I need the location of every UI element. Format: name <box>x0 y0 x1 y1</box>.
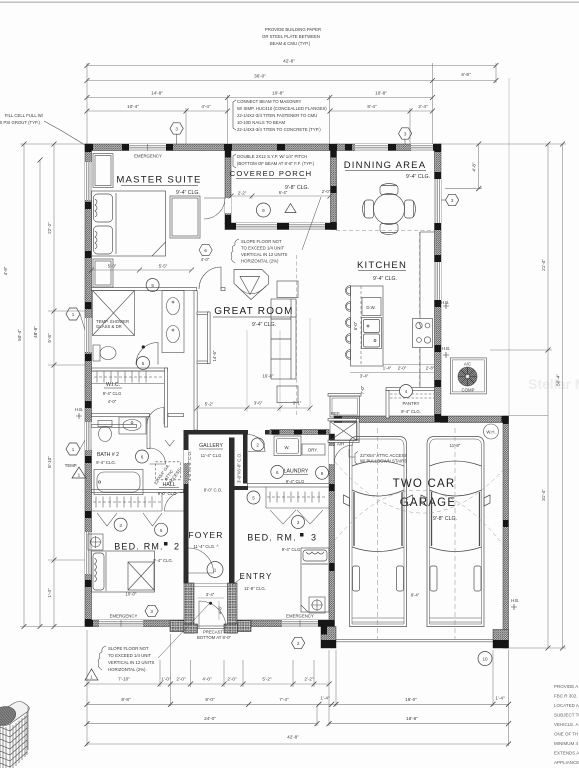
svg-text:7'-0": 7'-0" <box>360 385 365 394</box>
svg-text:SUBJECT TO: SUBJECT TO <box>554 713 579 718</box>
niche jog great room <box>197 312 210 315</box>
AH closet <box>330 422 357 441</box>
window: left wall d (bedrm2) <box>85 532 92 574</box>
svg-text:PRECAST: PRECAST <box>203 630 224 635</box>
wall: kitchen REF nook <box>328 394 361 397</box>
furniture: master dresser <box>170 196 200 238</box>
svg-text:EMERGENCY: EMERGENCY <box>110 614 138 619</box>
room label: BED RM 2 <box>114 542 180 564</box>
bedrm3 fan box <box>309 597 325 613</box>
filled cells: top wall <box>85 144 93 151</box>
svg-text:4'-8": 4'-8" <box>3 266 8 275</box>
note: slope floor bottom-left <box>85 604 209 680</box>
svg-text:22'-2": 22'-2" <box>47 222 52 234</box>
svg-text:14'-8": 14'-8" <box>151 91 163 96</box>
svg-text:11'-8" CLG.: 11'-8" CLG. <box>244 586 266 591</box>
svg-text:5'-5": 5'-5" <box>159 264 168 269</box>
svg-text:ENTRY: ENTRY <box>240 572 273 581</box>
svg-text:HORIZONTAL (2%): HORIZONTAL (2%) <box>241 259 279 264</box>
svg-text:6: 6 <box>204 248 207 253</box>
wall: garage right <box>503 416 509 648</box>
svg-text:7'-4": 7'-4" <box>279 697 289 702</box>
room label: HALL <box>153 440 222 496</box>
svg-text:PANTRY: PANTRY <box>402 401 419 406</box>
svg-text:9'-4" CLG: 9'-4" CLG <box>286 479 305 484</box>
svg-text:TEMP.: TEMP. <box>65 463 78 468</box>
wall: bottom bedrm2 <box>85 620 187 627</box>
note: fill cell full <box>0 113 85 145</box>
svg-text:SLOPE FLOOR NOT: SLOPE FLOOR NOT <box>241 239 282 244</box>
svg-text:BATH # 2: BATH # 2 <box>97 452 119 458</box>
svg-text:GREAT ROOM: GREAT ROOM <box>214 306 293 317</box>
wall: foyer east (dark) <box>229 438 235 584</box>
svg-text:EMERGENCY: EMERGENCY <box>134 154 162 159</box>
svg-text:22"X54" ATTIC ACCESS: 22"X54" ATTIC ACCESS <box>360 453 407 458</box>
svg-text:2: 2 <box>256 443 259 448</box>
furniture: master nightstands <box>93 154 113 288</box>
room label: COVERED PORCH <box>230 169 313 191</box>
hall door wedge <box>165 440 174 446</box>
svg-text:5: 5 <box>252 496 255 501</box>
hex 2 bottom <box>292 637 305 648</box>
door gap porch left wall <box>225 198 231 213</box>
svg-text:9'-4" CLG.: 9'-4" CLG. <box>96 460 116 465</box>
window: bottom bedrm2 EMERGENCY <box>99 620 143 627</box>
room label: TWO CAR GARAGE <box>393 478 457 522</box>
note: slope floor porch <box>231 197 321 264</box>
wall: covered porch top <box>231 144 337 151</box>
AC comp pad <box>450 358 486 394</box>
entry door sill <box>198 626 225 629</box>
wall: left exterior <box>85 144 92 627</box>
room label: BED RM 3 <box>247 533 317 553</box>
svg-text:GLASS & DR: GLASS & DR <box>96 324 122 329</box>
svg-text:3'-4": 3'-4" <box>206 592 215 597</box>
window: left wall b (bath glass block) <box>85 318 92 352</box>
master suite interior dim <box>92 269 192 271</box>
room label: LAUNDRY <box>284 469 309 485</box>
svg-text:MASTER SUITE: MASTER SUITE <box>116 175 201 186</box>
svg-text:11'-4" CLG. ^: 11'-4" CLG. ^ <box>193 544 218 549</box>
kitchen range <box>413 319 433 348</box>
svg-text:GALLERY: GALLERY <box>199 443 223 449</box>
svg-text:1: 1 <box>214 568 217 573</box>
symbols master bath <box>146 279 159 292</box>
svg-text:7'-10": 7'-10" <box>118 677 130 682</box>
svg-text:10-10D NAILS TO BEAM: 10-10D NAILS TO BEAM <box>237 120 286 125</box>
hall attic access hatch <box>156 462 181 480</box>
svg-text:9'-4" CLG: 9'-4" CLG <box>282 547 301 552</box>
svg-text:5: 5 <box>142 361 145 366</box>
svg-text:24'-0": 24'-0" <box>204 716 216 721</box>
svg-text:TO EXCEED 1/4 UNIT: TO EXCEED 1/4 UNIT <box>108 653 152 658</box>
svg-text:HORIZONTAL (2%).: HORIZONTAL (2%). <box>108 667 147 672</box>
door gap garage left wall (laundry) <box>329 446 335 464</box>
circle 10 <box>478 652 492 666</box>
svg-text:50'-4": 50'-4" <box>556 374 561 386</box>
svg-text:9'-4" CLG: 9'-4" CLG <box>103 391 122 396</box>
svg-text:2'-2": 2'-2" <box>238 191 247 196</box>
great room corner fireplace <box>234 270 269 300</box>
svg-text:A/H: A/H <box>337 442 344 447</box>
filled cells: left wall <box>85 144 92 152</box>
svg-text:1'-4": 1'-4" <box>383 366 392 371</box>
fixture: bath2 tub <box>94 470 143 495</box>
wall: bottom bedrm3 <box>234 620 329 627</box>
window: dining top 1 <box>355 144 388 151</box>
entry precast pillar left <box>184 583 194 633</box>
wall: bedrm3 west upper (dark) <box>243 435 248 484</box>
svg-text:OR STEEL PLATE BETWEEN: OR STEEL PLATE BETWEEN <box>262 34 320 39</box>
svg-text:31'-4": 31'-4" <box>541 489 546 501</box>
wall: foyer-gallery west (dark) <box>184 430 189 583</box>
room label: MASTER SUITE <box>116 154 201 197</box>
svg-text:2'-0": 2'-0" <box>322 189 331 194</box>
svg-text:5'-0": 5'-0" <box>108 264 117 269</box>
svg-text:H.B.: H.B. <box>75 407 83 412</box>
room label: KITCHEN <box>357 260 407 282</box>
great room niche dashes <box>297 231 435 416</box>
svg-text:A/C: A/C <box>464 362 471 367</box>
svg-text:H.B.: H.B. <box>441 300 449 305</box>
wic rod + hangers <box>92 371 165 384</box>
laundry door arc <box>248 435 265 452</box>
svg-text:ONE OF TH: ONE OF TH <box>554 732 578 737</box>
window: right wall dining <box>435 179 442 223</box>
svg-text:6: 6 <box>276 470 279 475</box>
fridge <box>330 396 360 417</box>
svg-text:1'-4": 1'-4" <box>495 695 505 700</box>
svg-text:10'-8": 10'-8" <box>375 91 387 96</box>
wall: AH closet <box>328 419 359 421</box>
wall: foyer north-east stub (dark) <box>229 486 248 490</box>
svg-text:4'-8": 4'-8" <box>472 162 477 172</box>
foyer step lines <box>189 584 230 587</box>
door gap in gallery north wall <box>248 430 265 435</box>
svg-text:9'-4" CLG.: 9'-4" CLG. <box>176 190 200 196</box>
svg-text:6: 6 <box>141 455 144 460</box>
svg-text:BED. RM.: BED. RM. <box>247 533 297 543</box>
svg-text:FBC R 302.: FBC R 302. <box>554 694 578 699</box>
svg-text:22-1/4X3-3/4 TITEN TO CONCRETE: 22-1/4X3-3/4 TITEN TO CONCRETE (TYP.) <box>237 127 321 132</box>
filled cells: bottom walls <box>85 620 93 627</box>
laundry wall hatch above <box>270 430 329 435</box>
garage swing arcs <box>335 462 503 545</box>
svg-text:5'-2": 5'-2" <box>205 402 214 407</box>
svg-text:16'-0": 16'-0" <box>405 697 417 702</box>
svg-text:2: 2 <box>174 542 180 552</box>
svg-text:APPLIANCE: APPLIANCE <box>554 760 579 765</box>
svg-text:4: 4 <box>405 389 408 394</box>
svg-text:5'-8": 5'-8" <box>47 333 52 343</box>
svg-text:10'-0": 10'-0" <box>126 592 137 597</box>
top dim row lines <box>87 65 496 67</box>
svg-text:3000 PSI GROUT (TYP.): 3000 PSI GROUT (TYP.) <box>0 120 41 125</box>
svg-text:5: 5 <box>160 528 163 533</box>
svg-text:3: 3 <box>311 533 317 543</box>
svg-text:22-1/4X2-3/4 TITEN FASTENER TO: 22-1/4X2-3/4 TITEN FASTENER TO CMU <box>237 113 317 118</box>
note: double 2x12 <box>233 154 315 168</box>
svg-text:9'-4" CLG.: 9'-4" CLG. <box>401 409 421 414</box>
master suite door + hexagon 6 <box>199 244 221 289</box>
svg-text:9'-4" CLG.: 9'-4" CLG. <box>252 322 276 328</box>
wall: dining left <box>331 151 337 230</box>
svg-text:3'-0"X6'-8" C.O.: 3'-0"X6'-8" C.O. <box>237 453 242 483</box>
door porch to great room <box>204 198 225 219</box>
svg-text:8'-10": 8'-10" <box>47 456 52 468</box>
water heater <box>484 424 499 439</box>
svg-text:11'-8": 11'-8" <box>450 443 461 448</box>
svg-text:VERTICAL IN 12 UNITS: VERTICAL IN 12 UNITS <box>108 660 154 665</box>
svg-text:FILL CELL FULL W/: FILL CELL FULL W/ <box>5 113 44 118</box>
wall: gallery north (dark) <box>189 430 270 435</box>
svg-text:42'-8": 42'-8" <box>283 59 295 64</box>
svg-text:2'-0": 2'-0" <box>176 677 186 682</box>
entry center dot <box>209 602 212 605</box>
wall: bedrm3 closet north (laundry south) <box>248 484 330 488</box>
svg-text:LAUNDRY: LAUNDRY <box>284 469 309 475</box>
svg-text:3: 3 <box>451 198 454 203</box>
master bath door <box>136 343 158 365</box>
svg-text:GARAGE: GARAGE <box>400 497 456 509</box>
filled cells: garage <box>329 434 335 442</box>
door: hall to bath2 <box>150 448 166 464</box>
svg-text:4'-4": 4'-4" <box>201 104 211 109</box>
wall: bath2 south / bedrm2 closet north <box>92 490 184 493</box>
wic door <box>147 408 164 425</box>
bedrm3 bed <box>301 548 329 612</box>
svg-text:H.B.: H.B. <box>442 346 450 351</box>
svg-text:H.B.: H.B. <box>511 598 519 603</box>
wall: dining top <box>336 144 441 151</box>
room label: PANTRY <box>401 401 421 414</box>
car 2 <box>421 428 490 639</box>
entry door swing <box>199 601 226 628</box>
svg-text:DINNING AREA: DINNING AREA <box>344 160 427 171</box>
entry stoop corner right <box>237 621 251 632</box>
dining table <box>363 184 416 235</box>
svg-text:6'-0": 6'-0" <box>353 321 358 330</box>
door: hall to bedrm2 <box>165 492 184 511</box>
wall: garage corner step <box>321 627 336 649</box>
svg-text:FOYER: FOYER <box>188 530 223 540</box>
svg-text:8'-8": 8'-8" <box>121 697 131 702</box>
window: bottom bedrm3 EMERGENCY <box>282 620 318 627</box>
room label: BATH 2 <box>96 452 119 465</box>
svg-text:2: 2 <box>297 641 300 646</box>
svg-text:3'-0"X6'-8" C.O.: 3'-0"X6'-8" C.O. <box>187 451 192 481</box>
bedrm2 bed <box>92 551 155 592</box>
svg-text:4'-8": 4'-8" <box>218 605 223 614</box>
svg-text:6'-8": 6'-8" <box>461 72 471 77</box>
svg-text:3: 3 <box>119 523 122 528</box>
hex 3 bottom-left <box>145 605 158 616</box>
svg-text:9'-4" CLG.: 9'-4" CLG. <box>153 558 173 563</box>
kitchen counters <box>420 232 435 388</box>
pantry shelves <box>390 394 434 398</box>
svg-text:DRY.: DRY. <box>308 448 318 453</box>
svg-text:MINIMUM 4: MINIMUM 4 <box>554 741 578 746</box>
wall: WIC south / gallery north-west <box>92 425 137 428</box>
kitchen island <box>351 286 384 366</box>
wall: right exterior (dining/kitchen) <box>435 144 442 422</box>
great room sofa <box>271 281 298 403</box>
svg-text:18'-8": 18'-8" <box>406 716 418 721</box>
svg-text:2'-8": 2'-8" <box>426 366 435 371</box>
svg-text:8'-0": 8'-0" <box>205 697 215 702</box>
note: connect beam to masonry <box>233 99 327 132</box>
fixture: bath2 sink <box>119 417 146 434</box>
svg-text:4'-0": 4'-0" <box>201 257 210 262</box>
wall: pantry west <box>386 391 389 419</box>
great room dims <box>197 318 310 412</box>
wall: master bath east / great room west <box>194 291 197 430</box>
fixture: master shower <box>93 291 135 336</box>
wall: WIC north <box>92 368 168 371</box>
room label: FOYER <box>188 530 223 549</box>
svg-text:COVERED PORCH: COVERED PORCH <box>230 169 313 178</box>
svg-text:42'-8": 42'-8" <box>287 735 299 740</box>
fixture: bath2 toilet <box>98 421 112 442</box>
svg-text:W.: W. <box>284 445 289 450</box>
svg-text:8'-0" C.O.: 8'-0" C.O. <box>204 488 223 493</box>
bedrm3 closet <box>266 487 329 524</box>
bedrm2 closet <box>92 493 163 526</box>
fixture: master toilet <box>93 345 116 361</box>
wall: garage top <box>334 416 509 423</box>
entry bottom band <box>184 624 198 633</box>
svg-text:EXTENDS A: EXTENDS A <box>554 751 579 756</box>
svg-text:BOTTOM AT 8'-0": BOTTOM AT 8'-0" <box>197 635 232 640</box>
svg-text:10'-4": 10'-4" <box>127 104 139 109</box>
porch dims <box>231 196 330 199</box>
entry stoop corner left <box>170 621 184 632</box>
room label: GALLERY <box>199 443 223 458</box>
hexagon 1 markers left <box>66 308 86 478</box>
svg-text:D.W.: D.W. <box>366 305 375 310</box>
svg-text:50'-4": 50'-4" <box>17 329 22 341</box>
svg-text:KITCHEN: KITCHEN <box>357 260 407 271</box>
bottom right note column <box>554 684 579 765</box>
svg-text:1: 1 <box>72 312 75 317</box>
svg-text:PROVIDE A: PROVIDE A <box>554 684 578 689</box>
svg-text:4'-0": 4'-0" <box>108 399 117 404</box>
svg-text:8'-4": 8'-4" <box>367 104 377 109</box>
svg-text:BED. RM.: BED. RM. <box>114 542 164 552</box>
svg-text:SLOPE FLOOR NOT: SLOPE FLOOR NOT <box>108 646 149 651</box>
svg-text:TO EXCEED 1/4 UNIT: TO EXCEED 1/4 UNIT <box>241 246 285 251</box>
svg-text:VEHICLE. A: VEHICLE. A <box>554 722 579 727</box>
foyer door arc + circle 1 <box>189 548 214 573</box>
svg-text:6'-4": 6'-4" <box>279 190 288 195</box>
svg-text:14'-6": 14'-6" <box>212 350 217 361</box>
window: right wall kitchen <box>435 262 442 300</box>
hexagon 3 markers <box>170 123 459 206</box>
svg-text:TWO CAR: TWO CAR <box>393 478 456 490</box>
svg-text:Stellar MLS: Stellar MLS <box>528 376 579 392</box>
circle 9 porch <box>256 203 270 217</box>
svg-text:10'-8": 10'-8" <box>272 91 284 96</box>
svg-text:9'-4" CLG.: 9'-4" CLG. <box>406 174 430 180</box>
svg-text:1'-4": 1'-4" <box>47 588 52 598</box>
svg-text:3: 3 <box>297 520 300 525</box>
filled cells: porch <box>225 151 231 158</box>
extension lines <box>86 63 88 144</box>
svg-text:8'-0" CLG: 8'-0" CLG <box>158 491 177 496</box>
svg-text:1'-0": 1'-0" <box>161 677 171 682</box>
svg-text:36'-0": 36'-0" <box>254 74 266 79</box>
svg-text:1: 1 <box>72 447 75 452</box>
wall: garage door right post <box>493 630 509 649</box>
svg-text:9: 9 <box>262 208 265 213</box>
window: left wall c <box>85 422 92 450</box>
svg-text:(BOTTOM OF BEAM AT 8'-8" F.F.: (BOTTOM OF BEAM AT 8'-8" F.F. (TYP.) <box>237 161 315 166</box>
porch railing openings <box>236 223 277 230</box>
wall: pantry north <box>386 388 435 391</box>
wall: master suite south <box>92 288 197 291</box>
garage door opening lines <box>336 639 493 642</box>
H.B. hose bibs <box>76 352 517 610</box>
svg-text:W/ SIMP. HUC410 (CONCEALLED FL: W/ SIMP. HUC410 (CONCEALLED FLANGES) <box>237 106 327 111</box>
svg-text:9'-8" CLG.: 9'-8" CLG. <box>433 516 457 522</box>
filled cells: right wall <box>435 144 442 152</box>
svg-text:3: 3 <box>175 127 178 132</box>
note: provide building paper <box>262 27 321 46</box>
sheet top edge <box>0 1 579 3</box>
room label: ENTRY <box>232 572 272 591</box>
svg-text:3'-1": 3'-1" <box>293 401 302 406</box>
window: dining top 2 <box>411 144 433 151</box>
svg-text:2'-2": 2'-2" <box>304 677 314 682</box>
fixture: master vanity 2 sinks <box>162 291 184 353</box>
svg-text:21'-4": 21'-4" <box>541 259 546 271</box>
svg-text:W.I.C.: W.I.C. <box>106 382 120 388</box>
svg-text:CONNECT BEAM TO MASONRY: CONNECT BEAM TO MASONRY <box>237 99 302 104</box>
svg-text:48'-8": 48'-8" <box>33 326 38 338</box>
svg-text:2'-0": 2'-0" <box>398 366 407 371</box>
room label: WIC <box>103 382 122 404</box>
ac condenser isometric bottom-left <box>0 702 29 768</box>
wall: garage left <box>329 434 335 627</box>
svg-text:2'-0": 2'-0" <box>227 677 237 682</box>
entry precast pillar right <box>228 583 238 633</box>
svg-text:LOCATED A: LOCATED A <box>554 703 579 708</box>
svg-text:9'-4" CLG.: 9'-4" CLG. <box>373 276 397 282</box>
svg-text:4'-0": 4'-0" <box>202 677 212 682</box>
wall: master suite top <box>85 144 231 151</box>
svg-text:COMP: COMP <box>462 388 475 393</box>
svg-text:3'-6": 3'-6" <box>254 401 263 406</box>
svg-text:EMERGENCY: EMERGENCY <box>286 614 314 619</box>
room label: GREAT ROOM <box>213 306 296 328</box>
svg-text:8'-4": 8'-4" <box>411 593 420 598</box>
svg-text:8: 8 <box>321 471 324 476</box>
furniture: master bed <box>92 191 166 256</box>
svg-text:5'-2": 5'-2" <box>262 677 272 682</box>
laundry washer dryer <box>274 436 325 456</box>
svg-text:16'-8": 16'-8" <box>263 374 274 379</box>
svg-text:11'-4" CLG: 11'-4" CLG <box>201 453 222 458</box>
wall: WIC east <box>165 368 168 427</box>
svg-text:2'-4": 2'-4" <box>418 104 428 109</box>
wall: bath2 / hall <box>147 417 150 449</box>
svg-text:1'-4": 1'-4" <box>320 695 330 700</box>
kitchen stools <box>346 286 351 360</box>
svg-text:3: 3 <box>150 609 153 614</box>
wall: porch bottom <box>225 223 337 230</box>
svg-text:VERTICAL IN 12 UNITS: VERTICAL IN 12 UNITS <box>241 252 287 257</box>
svg-text:5: 5 <box>151 283 154 288</box>
